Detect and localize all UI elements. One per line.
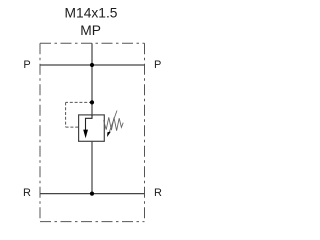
svg-text:R: R <box>23 187 31 199</box>
svg-text:P: P <box>154 59 161 71</box>
svg-text:R: R <box>154 187 162 199</box>
svg-text:MP: MP <box>80 23 101 38</box>
svg-text:P: P <box>23 59 30 71</box>
svg-text:M14x1.5: M14x1.5 <box>65 6 118 21</box>
